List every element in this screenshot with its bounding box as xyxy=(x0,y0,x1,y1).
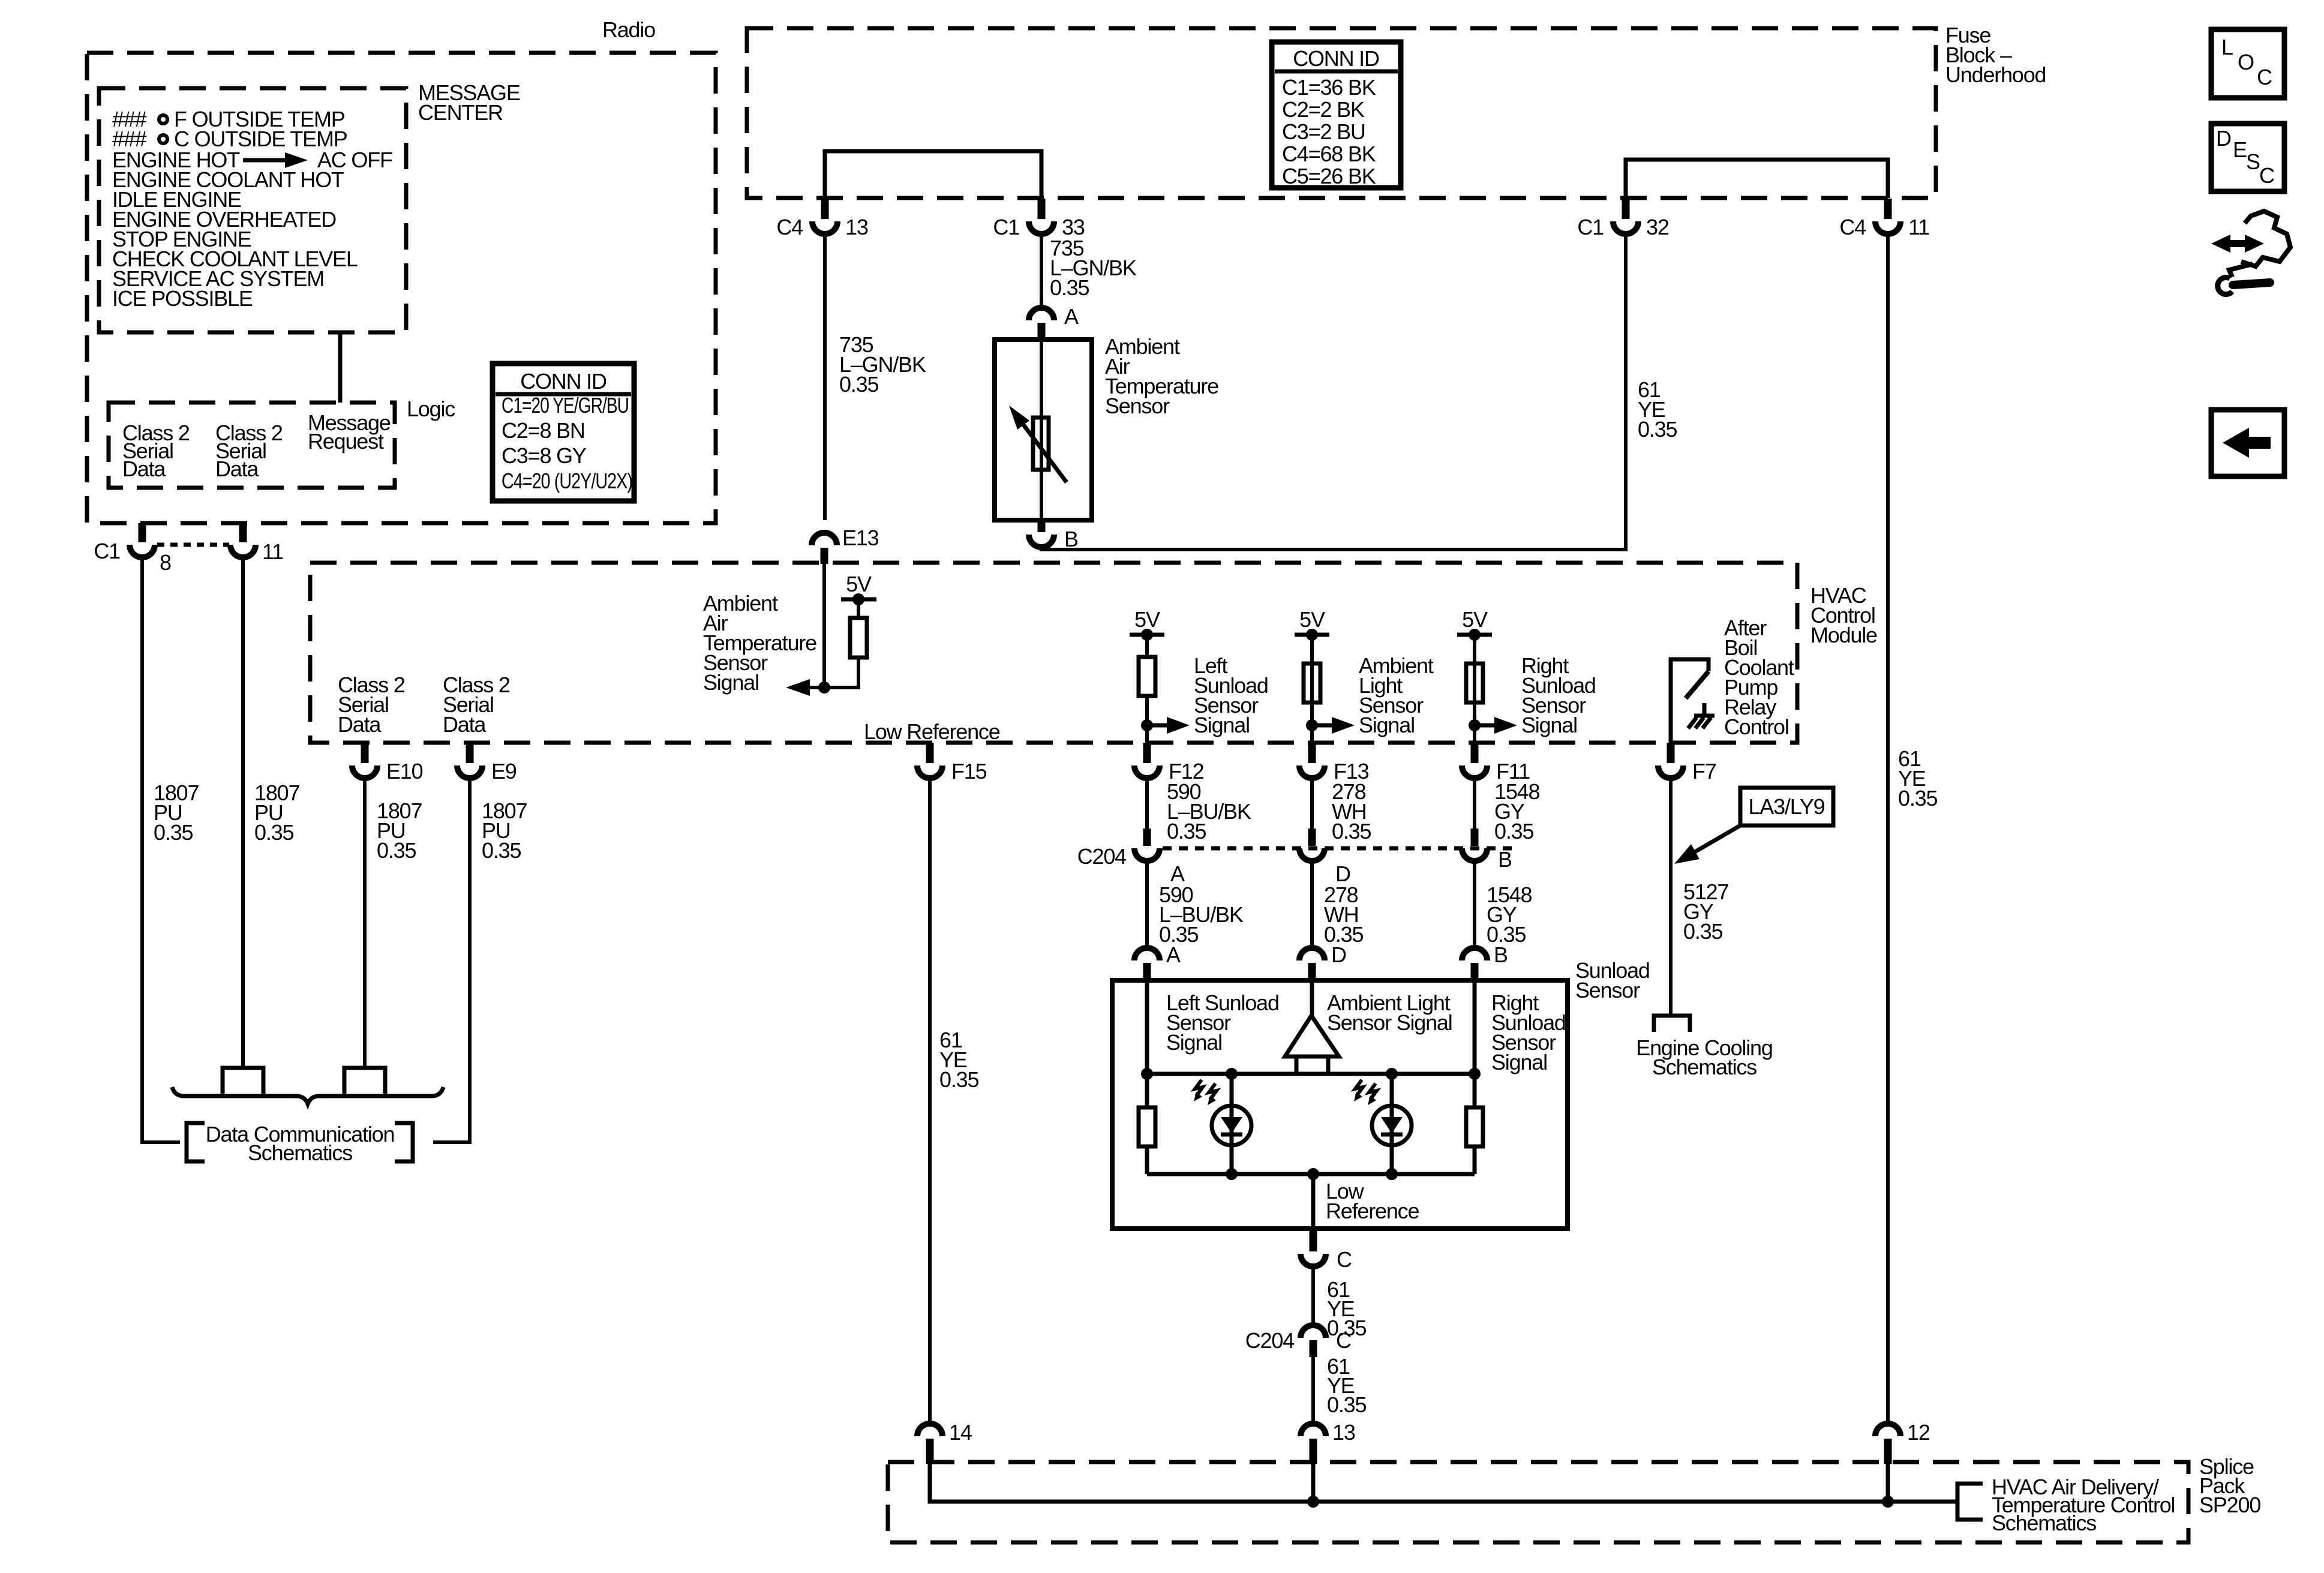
label Data Communication Schematics xyxy=(206,1122,395,1165)
connector C204 pin B xyxy=(1462,828,1487,861)
svg-text:C1: C1 xyxy=(993,215,1019,239)
svg-text:0.35: 0.35 xyxy=(377,838,416,863)
svg-text:Signal: Signal xyxy=(1359,713,1415,737)
Splice Pack SP200 dashed box xyxy=(888,1462,2188,1542)
connector D (sunload sensor) xyxy=(1299,948,1325,980)
Fuse Block Underhood dashed box xyxy=(747,28,1936,198)
thermistor variable arrow xyxy=(1009,406,1067,482)
label F11 xyxy=(1496,759,1530,784)
resistor left (sunload) xyxy=(1139,1074,1155,1174)
connector C1 pin 32 (fuse block) xyxy=(1613,199,1638,234)
svg-text:0.35: 0.35 xyxy=(254,820,293,845)
svg-text:C: C xyxy=(1337,1247,1352,1272)
Ambient Air Temperature Sensor box xyxy=(995,340,1092,520)
svg-text:11: 11 xyxy=(1908,215,1929,239)
svg-text:Signal: Signal xyxy=(1521,713,1577,737)
label 8 xyxy=(160,550,171,575)
message center display text list xyxy=(112,107,392,311)
connector C4 pin 11 (fuse block) xyxy=(1875,199,1900,234)
top bus of sunload network xyxy=(1141,1068,1481,1080)
connector F13 (HVAC module) xyxy=(1299,743,1325,778)
svg-text:B: B xyxy=(1064,527,1078,551)
wire resistor to junction with arrow xyxy=(786,658,858,696)
svg-text:0.35: 0.35 xyxy=(939,1067,978,1092)
label Ambient Light Sensor Signal xyxy=(1359,653,1434,737)
svg-text:A: A xyxy=(1166,942,1181,967)
wire E13 into module to junction xyxy=(822,564,826,688)
connector C204 pin D xyxy=(1299,828,1325,861)
svg-text:Schematics: Schematics xyxy=(1652,1055,1756,1079)
bracket (HVAC air delivery reference) xyxy=(1957,1484,1983,1520)
svg-text:E: E xyxy=(2233,137,2247,162)
svg-text:Low Reference: Low Reference xyxy=(864,719,1000,744)
resistor (left sunload pull-up) xyxy=(1139,657,1155,696)
bracket terminator (engine cooling) xyxy=(1654,1016,1690,1032)
svg-text:0.35: 0.35 xyxy=(839,372,878,397)
HVAC Control Module dashed box xyxy=(310,563,1797,743)
label Logic xyxy=(407,397,455,421)
svg-text:Reference: Reference xyxy=(1326,1199,1419,1223)
resistor (E13 pull-up) xyxy=(850,618,867,658)
icon DESC box xyxy=(2211,124,2284,191)
Sunload Sensor box xyxy=(1112,980,1568,1229)
label 590 L-BU/BK 0.35 (sensor A wire) xyxy=(1159,882,1244,947)
connector C204 pin A xyxy=(1134,828,1160,861)
svg-text:0.35: 0.35 xyxy=(1167,819,1206,843)
label E9 xyxy=(491,759,517,784)
label F7 xyxy=(1692,759,1716,784)
svg-text:0.35: 0.35 xyxy=(1050,275,1089,300)
connector E9 (HVAC module) xyxy=(457,743,482,778)
wire C204-C to splice 13 xyxy=(1311,1357,1315,1424)
wire E10 down to goalpost xyxy=(363,778,367,1068)
resistor (ambient light pull-up) xyxy=(1304,664,1320,703)
label C204 xyxy=(1245,1328,1294,1353)
label 61 YE 0.35 (C wire) xyxy=(1327,1277,1366,1340)
Radio module dashed box xyxy=(87,53,716,523)
label E13 xyxy=(842,526,879,550)
label 11 xyxy=(1908,215,1929,239)
wire C4-13 down to E13 xyxy=(823,234,827,520)
Radio CONN ID table xyxy=(493,364,634,501)
svg-text:Signal: Signal xyxy=(1491,1050,1547,1074)
label Low Reference xyxy=(864,719,1000,744)
connector C204 pin C xyxy=(1301,1325,1326,1357)
wire C to C204-C xyxy=(1311,1266,1315,1325)
svg-text:C: C xyxy=(2257,65,2272,89)
connector A (sunload sensor) xyxy=(1134,948,1160,980)
svg-text:CENTER: CENTER xyxy=(418,100,503,125)
label 1807 PU 0.35 (E10 wire) xyxy=(377,798,422,863)
svg-text:C3=2 BU: C3=2 BU xyxy=(1282,119,1365,144)
svg-text:5V: 5V xyxy=(1462,607,1488,632)
wire resistor to F13 with signal arrow xyxy=(1306,703,1355,743)
wire sunload B into box to top bus xyxy=(1473,980,1477,1074)
connector A (ambient air temperature sensor) xyxy=(1029,308,1054,340)
wire radio pin 8 stub xyxy=(139,523,146,542)
svg-text:B: B xyxy=(1494,942,1508,967)
svg-text:11: 11 xyxy=(262,539,283,564)
connector C4 pin 13 (fuse block) xyxy=(812,199,837,234)
svg-text:5V: 5V xyxy=(1299,607,1325,632)
connector boundary dashed line C204 xyxy=(1163,846,1512,851)
svg-text:0.35: 0.35 xyxy=(1332,819,1371,843)
svg-text:C4: C4 xyxy=(776,215,803,239)
svg-text:CONN ID: CONN ID xyxy=(520,369,606,394)
connector C1 pin 8 (radio) xyxy=(130,545,155,557)
svg-text:Data: Data xyxy=(215,457,259,481)
svg-text:0.35: 0.35 xyxy=(1494,819,1533,843)
svg-text:Control: Control xyxy=(1724,715,1789,739)
svg-text:SP200: SP200 xyxy=(2199,1493,2260,1517)
wire F11 to C204-B xyxy=(1473,778,1476,828)
connector B (sunload sensor) xyxy=(1462,948,1487,980)
label 5127 GY 0.35 (F7 wire) xyxy=(1683,879,1728,944)
label 61 YE 0.35 (F15 wire) xyxy=(939,1028,978,1092)
svg-text:C1: C1 xyxy=(1577,215,1604,239)
svg-text:C4=68 BK: C4=68 BK xyxy=(1282,142,1376,166)
svg-text:D: D xyxy=(2216,126,2231,151)
wire radio pin 8 down to data communication xyxy=(142,557,180,1142)
svg-text:0.35: 0.35 xyxy=(1327,1392,1366,1417)
label HVAC Control Module xyxy=(1810,583,1877,647)
svg-text:C1=36 BK: C1=36 BK xyxy=(1282,75,1376,100)
svg-text:C: C xyxy=(2259,163,2274,188)
wire C1-32 down to sensor pin B (horizontal at 916) xyxy=(1041,234,1626,550)
connector 14 (splice pack) xyxy=(917,1424,942,1464)
connector F7 (HVAC module) xyxy=(1658,743,1683,778)
connector F12 (HVAC module) xyxy=(1134,743,1160,778)
Message Center dashed box xyxy=(99,88,406,332)
Fuse block CONN ID table xyxy=(1272,42,1401,188)
label C1 xyxy=(1577,215,1604,239)
wire radio pin 11 stub xyxy=(239,523,247,542)
svg-text:0.35: 0.35 xyxy=(1898,786,1937,810)
svg-text:A: A xyxy=(1064,304,1079,329)
label A xyxy=(1170,861,1185,886)
svg-text:Signal: Signal xyxy=(1166,1030,1222,1055)
label F12 xyxy=(1169,759,1204,784)
light arrows (left photodiode) xyxy=(1194,1080,1217,1105)
label 5V (E13 pull-up) xyxy=(846,572,872,596)
label Low Reference xyxy=(1326,1179,1419,1223)
svg-text:L: L xyxy=(2221,35,2233,59)
label 278 WH 0.35 (F13 wire) xyxy=(1332,779,1371,843)
label After Boil Coolant Pump Relay Control xyxy=(1724,616,1794,739)
thermistor resistor element xyxy=(1033,418,1049,470)
svg-text:C204: C204 xyxy=(1245,1328,1294,1353)
label 1548 GY 0.35 (F11 wire) xyxy=(1494,779,1539,843)
light arrows (right photodiode) xyxy=(1354,1080,1377,1105)
svg-text:LA3/LY9: LA3/LY9 xyxy=(1748,794,1824,819)
connector C1 pin 33 (fuse block) xyxy=(1029,199,1054,234)
svg-text:Sensor Signal: Sensor Signal xyxy=(1327,1010,1452,1035)
svg-text:Request: Request xyxy=(308,429,384,454)
label C xyxy=(1336,1328,1351,1353)
svg-text:Sensor: Sensor xyxy=(1575,978,1640,1002)
wire C204-B to sunload B xyxy=(1473,861,1476,948)
wire resistor to F11 with signal arrow xyxy=(1469,703,1517,743)
label Fuse Block - Underhood xyxy=(1945,23,2046,87)
wire C204-D to sunload D xyxy=(1310,861,1314,948)
connector 13 (splice pack) xyxy=(1301,1424,1326,1464)
connector F15 (HVAC module) xyxy=(917,743,942,778)
label 5V (right sunload) xyxy=(1462,607,1488,632)
label Class 2 Serial Data (E9) xyxy=(443,673,510,737)
svg-text:C4=20 (U2Y/U2X): C4=20 (U2Y/U2X) xyxy=(502,469,632,493)
wire C4-11 down to splice 12 xyxy=(1886,234,1890,1424)
svg-text:B: B xyxy=(1498,847,1512,872)
5V supply bar (left sunload) xyxy=(1130,629,1164,657)
connector pin 11 (radio) xyxy=(230,545,256,557)
svg-text:5V: 5V xyxy=(1134,607,1160,632)
label Engine Cooling Schematics xyxy=(1636,1035,1772,1079)
svg-text:E10: E10 xyxy=(386,759,423,784)
relay contact (after boil coolant pump relay control) xyxy=(1671,659,1709,743)
connector E13 (HVAC module) xyxy=(812,533,837,564)
svg-text:Radio: Radio xyxy=(602,17,655,42)
svg-text:0.35: 0.35 xyxy=(482,838,521,863)
svg-text:C204: C204 xyxy=(1077,844,1126,869)
label Ambient Air Temperature Sensor xyxy=(1105,334,1218,418)
photodiode right xyxy=(1372,1074,1412,1174)
label 13 xyxy=(1332,1420,1355,1445)
label C204 xyxy=(1077,844,1126,869)
wire radio pin 11 down to goalpost xyxy=(241,557,245,1068)
label HVAC Air Delivery Temperature Control Schematics xyxy=(1992,1475,2175,1535)
label Message Request xyxy=(308,410,391,454)
label E10 xyxy=(386,759,423,784)
svg-text:0.35: 0.35 xyxy=(1638,417,1677,442)
label Radio xyxy=(602,17,655,42)
label 1807 PU 0.35 (E9 wire) xyxy=(482,798,527,863)
svg-text:C4: C4 xyxy=(1839,215,1866,239)
splice bus SP200 xyxy=(930,1464,1956,1508)
photodiode left xyxy=(1212,1074,1251,1174)
label Class 2 Serial Data (E10) xyxy=(338,673,405,737)
label 1807 PU 0.35 (pin 11 wire) xyxy=(254,781,299,845)
resistor (right sunload pull-up) xyxy=(1466,664,1483,703)
svg-text:13: 13 xyxy=(1332,1420,1355,1445)
label B xyxy=(1064,527,1078,551)
label Splice Pack SP200 xyxy=(2199,1454,2260,1517)
label F15 xyxy=(951,759,987,784)
wire inside fuse block C4-13 to C1-33 xyxy=(825,151,1041,198)
label 5V (ambient light) xyxy=(1299,607,1325,632)
svg-text:E9: E9 xyxy=(491,759,517,784)
svg-text:Signal: Signal xyxy=(1194,713,1250,737)
label 12 xyxy=(1907,1420,1930,1445)
label Ambient Air Temperature Sensor Signal xyxy=(703,591,816,695)
label 61 YE 0.35 (C204-C wire) xyxy=(1327,1354,1366,1417)
goalpost terminator (E10 wire) xyxy=(344,1068,385,1094)
svg-text:O: O xyxy=(2238,50,2254,74)
Logic dashed box xyxy=(109,403,395,488)
5V supply bar (ambient light) xyxy=(1295,629,1329,664)
label Left Sunload Sensor Signal xyxy=(1194,653,1268,737)
wire resistor to F12 with signal arrow xyxy=(1141,696,1190,743)
5V supply bar (right sunload) xyxy=(1457,629,1492,664)
svg-text:Sensor: Sensor xyxy=(1105,394,1170,418)
svg-text:Data: Data xyxy=(338,712,382,737)
label 61 YE 0.35 (C1-32 wire) xyxy=(1638,377,1677,442)
svg-text:Schematics: Schematics xyxy=(1992,1511,2096,1535)
svg-text:0.35: 0.35 xyxy=(154,820,193,845)
label 11 xyxy=(262,539,283,564)
thermistor wire through sensor box xyxy=(1040,340,1043,520)
svg-text:Module: Module xyxy=(1810,623,1877,647)
label Right Sunload Sensor Signal xyxy=(1521,653,1596,737)
label C4 xyxy=(776,215,803,239)
svg-text:Underhood: Underhood xyxy=(1945,62,2046,87)
wire F13 to C204-D xyxy=(1310,778,1314,828)
icon LOC box xyxy=(2211,29,2284,98)
bottom bus of sunload network xyxy=(1147,1168,1475,1180)
label MESSAGE CENTER xyxy=(418,80,520,125)
label C1 xyxy=(993,215,1019,239)
label 33 xyxy=(1062,215,1085,239)
wire low reference to box edge xyxy=(1311,1174,1316,1229)
svg-text:14: 14 xyxy=(949,1420,972,1445)
svg-text:Schematics: Schematics xyxy=(248,1140,352,1165)
svg-text:C: C xyxy=(1336,1328,1351,1353)
label 735 L-GN/BK 0.35 (C4-13 wire) xyxy=(839,332,926,397)
label 32 xyxy=(1646,215,1669,239)
svg-text:E13: E13 xyxy=(842,526,879,550)
svg-text:8: 8 xyxy=(160,550,171,575)
svg-text:F7: F7 xyxy=(1692,759,1716,784)
label Ambient Light Sensor Signal xyxy=(1327,990,1452,1035)
label 14 xyxy=(949,1420,972,1445)
wire C204-A to sunload A xyxy=(1145,861,1149,948)
connector 12 (splice pack) xyxy=(1875,1424,1900,1464)
wire F7 down to engine cooling schematics xyxy=(1669,778,1673,1016)
svg-text:S: S xyxy=(2246,149,2260,174)
label Sunload Sensor xyxy=(1575,958,1650,1002)
label 61 YE 0.35 (C4-11 wire) xyxy=(1898,746,1937,810)
wire F12 to C204-A xyxy=(1145,778,1149,828)
wire C1-33 down to sensor pin A xyxy=(1040,234,1043,308)
svg-text:C5=26 BK: C5=26 BK xyxy=(1282,164,1376,188)
label Class 2 Serial Data (logic pin 1) xyxy=(122,421,190,481)
label Right Sunload Sensor Signal xyxy=(1491,990,1566,1074)
label 735 L-GN/BK 0.35 (C1-33 wire) xyxy=(1050,236,1137,300)
svg-text:13: 13 xyxy=(845,215,868,239)
svg-text:F15: F15 xyxy=(951,759,987,784)
wire Message Request from message center to logic box xyxy=(338,332,343,403)
svg-text:32: 32 xyxy=(1646,215,1669,239)
label F13 xyxy=(1334,759,1369,784)
connector F11 (HVAC module) xyxy=(1462,743,1487,778)
goalpost terminator (pin 11 wire) xyxy=(223,1068,263,1094)
label 590 L-BU/BK 0.35 (F12 wire) xyxy=(1167,779,1251,843)
icon wiring harness with arrow and wrench xyxy=(2211,211,2290,295)
resistor right (sunload) xyxy=(1466,1074,1483,1174)
svg-text:12: 12 xyxy=(1907,1420,1930,1445)
svg-text:C3=8 GY: C3=8 GY xyxy=(502,443,587,468)
svg-text:Signal: Signal xyxy=(703,670,759,695)
wire inside fuse block C1-32 to C4-11 xyxy=(1626,160,1888,198)
connector E10 (HVAC module) xyxy=(352,743,377,778)
label B xyxy=(1494,942,1508,967)
bracket right (data communication schematics) xyxy=(395,1123,413,1161)
label 278 WH 0.35 (sensor D wire) xyxy=(1324,882,1363,947)
svg-text:Data: Data xyxy=(122,457,166,481)
5V supply bar (E13) xyxy=(841,593,876,618)
label 1548 GY 0.35 (sensor B wire) xyxy=(1487,882,1532,947)
label B xyxy=(1498,847,1512,872)
svg-text:0.35: 0.35 xyxy=(1683,919,1722,944)
wire E9 down to data communication xyxy=(433,778,470,1142)
relay coil ground symbol xyxy=(1688,703,1715,728)
label 5V (left sunload) xyxy=(1134,607,1160,632)
label A xyxy=(1166,942,1181,967)
label C1 xyxy=(94,539,120,563)
svg-text:D: D xyxy=(1331,942,1346,967)
svg-text:C1: C1 xyxy=(94,539,120,563)
svg-text:ICE POSSIBLE: ICE POSSIBLE xyxy=(112,286,253,311)
svg-text:Data: Data xyxy=(443,712,487,737)
label A xyxy=(1064,304,1079,329)
arrow ENGINE HOT to AC OFF xyxy=(243,152,308,168)
label Class 2 Serial Data (logic pin 2) xyxy=(215,421,283,481)
label D xyxy=(1335,861,1350,886)
label 1807 PU 0.35 (pin 8 wire) xyxy=(154,781,199,845)
underbrace (data communication) xyxy=(172,1087,443,1104)
wire sunload A into box to top bus xyxy=(1145,980,1149,1074)
svg-text:CONN ID: CONN ID xyxy=(1293,46,1379,71)
svg-text:C2=2 BK: C2=2 BK xyxy=(1282,97,1365,122)
connector C (sunload sensor) xyxy=(1301,1229,1326,1266)
svg-text:C2=8 BN: C2=8 BN xyxy=(502,418,585,443)
label 13 xyxy=(845,215,868,239)
icon back arrow box xyxy=(2211,410,2284,476)
label Left Sunload Sensor Signal xyxy=(1166,990,1279,1055)
label C4 xyxy=(1839,215,1866,239)
bracket left (data communication schematics) xyxy=(187,1123,205,1161)
LA3/LY9 callout box with arrow xyxy=(1674,788,1833,864)
svg-text:C1=20 YE/GR/BU: C1=20 YE/GR/BU xyxy=(502,393,629,418)
connector B (ambient air temperature sensor) xyxy=(1029,520,1054,547)
svg-text:Logic: Logic xyxy=(407,397,455,421)
svg-text:5V: 5V xyxy=(846,572,872,596)
amplifier buffer triangle xyxy=(1285,1016,1339,1074)
connector boundary dotted line C1 xyxy=(157,543,229,547)
wire F15 down to splice 14 xyxy=(928,778,932,1424)
wire sunload D into box to amp xyxy=(1310,980,1314,1016)
label C xyxy=(1337,1247,1352,1272)
label D xyxy=(1331,942,1346,967)
